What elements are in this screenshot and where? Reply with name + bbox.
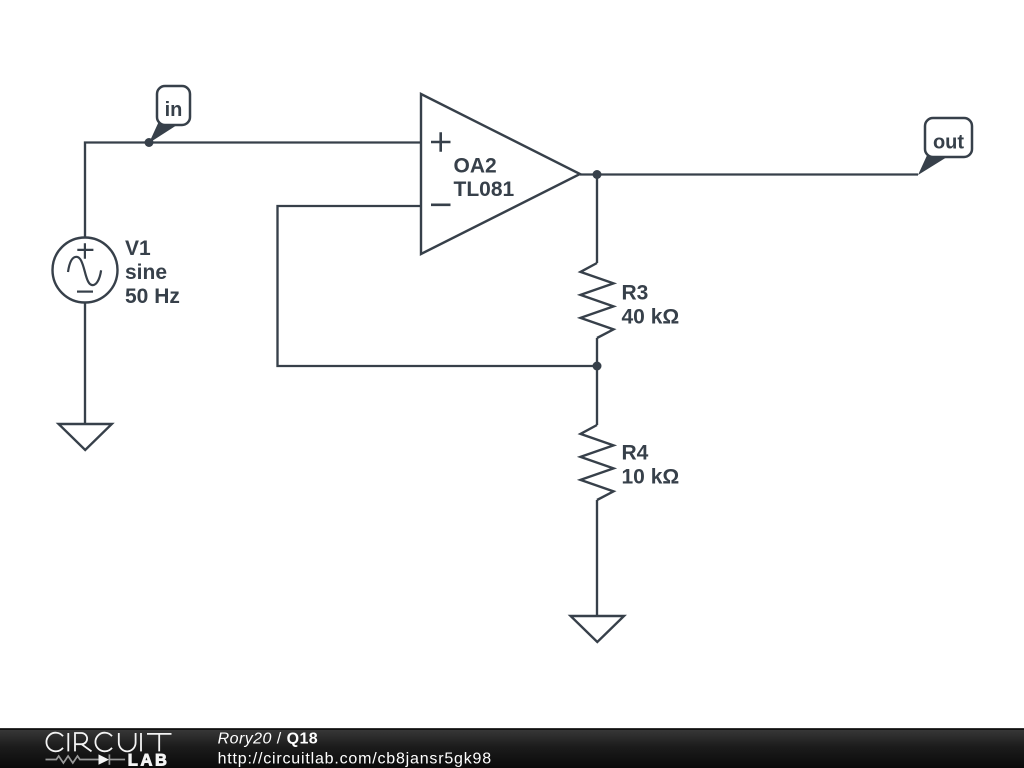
svg-text:10 kΩ: 10 kΩ [622, 466, 680, 489]
node C (R3/R4 junction) [593, 362, 602, 371]
CircuitLab logo: resistor-diode-LAB [46, 754, 126, 764]
svg-text:sine: sine [125, 261, 167, 284]
pin - (inverting input) [431, 204, 451, 207]
resistor R3 [581, 263, 614, 338]
wire: op-amp output to out flag [580, 173, 918, 175]
wire: output node down to R3 [596, 175, 598, 264]
ground (below R4) [571, 616, 624, 642]
svg-text:Rory20 / Q18: Rory20 / Q18 [218, 731, 319, 748]
svg-text:R3: R3 [622, 281, 649, 304]
wire: R3 bottom to node [596, 338, 598, 366]
svg-text:in: in [165, 99, 183, 121]
wire: node to R4 top [596, 366, 598, 425]
wire: in node to op-amp + input [85, 143, 421, 239]
node B (output) [593, 170, 602, 179]
V1 sine waveform glyph [68, 257, 101, 285]
pin + (non-inverting input) [431, 132, 451, 151]
svg-text:out: out [933, 132, 964, 154]
resistor R4 [581, 425, 614, 500]
V1 body circle [53, 238, 118, 303]
svg-text:TL081: TL081 [454, 178, 515, 201]
wire: feedback from - input to R3/R4 node [278, 206, 598, 366]
svg-text:50 Hz: 50 Hz [125, 285, 180, 308]
wire: V1 bottom to ground [84, 302, 86, 424]
flag in [149, 86, 190, 143]
svg-text:40 kΩ: 40 kΩ [622, 305, 680, 328]
V1 + terminal mark [77, 243, 93, 259]
V1 - terminal mark [77, 291, 93, 293]
ground (below V1) [59, 424, 112, 450]
flag out [918, 118, 972, 175]
wire: R4 bottom to ground [596, 500, 598, 616]
svg-text:http://circuitlab.com/cb8jansr: http://circuitlab.com/cb8jansr5gk98 [218, 750, 492, 767]
voltage source V1 [53, 238, 118, 303]
op-amp triangle body [421, 94, 580, 254]
svg-text:R4: R4 [622, 442, 649, 465]
svg-text:OA2: OA2 [454, 155, 497, 178]
node A (in) [145, 138, 154, 147]
op-amp OA2 [421, 94, 580, 254]
CircuitLab logo: CIRCUIT [46, 733, 171, 752]
svg-text:V1: V1 [125, 237, 151, 260]
svg-text:LAB: LAB [128, 751, 170, 768]
